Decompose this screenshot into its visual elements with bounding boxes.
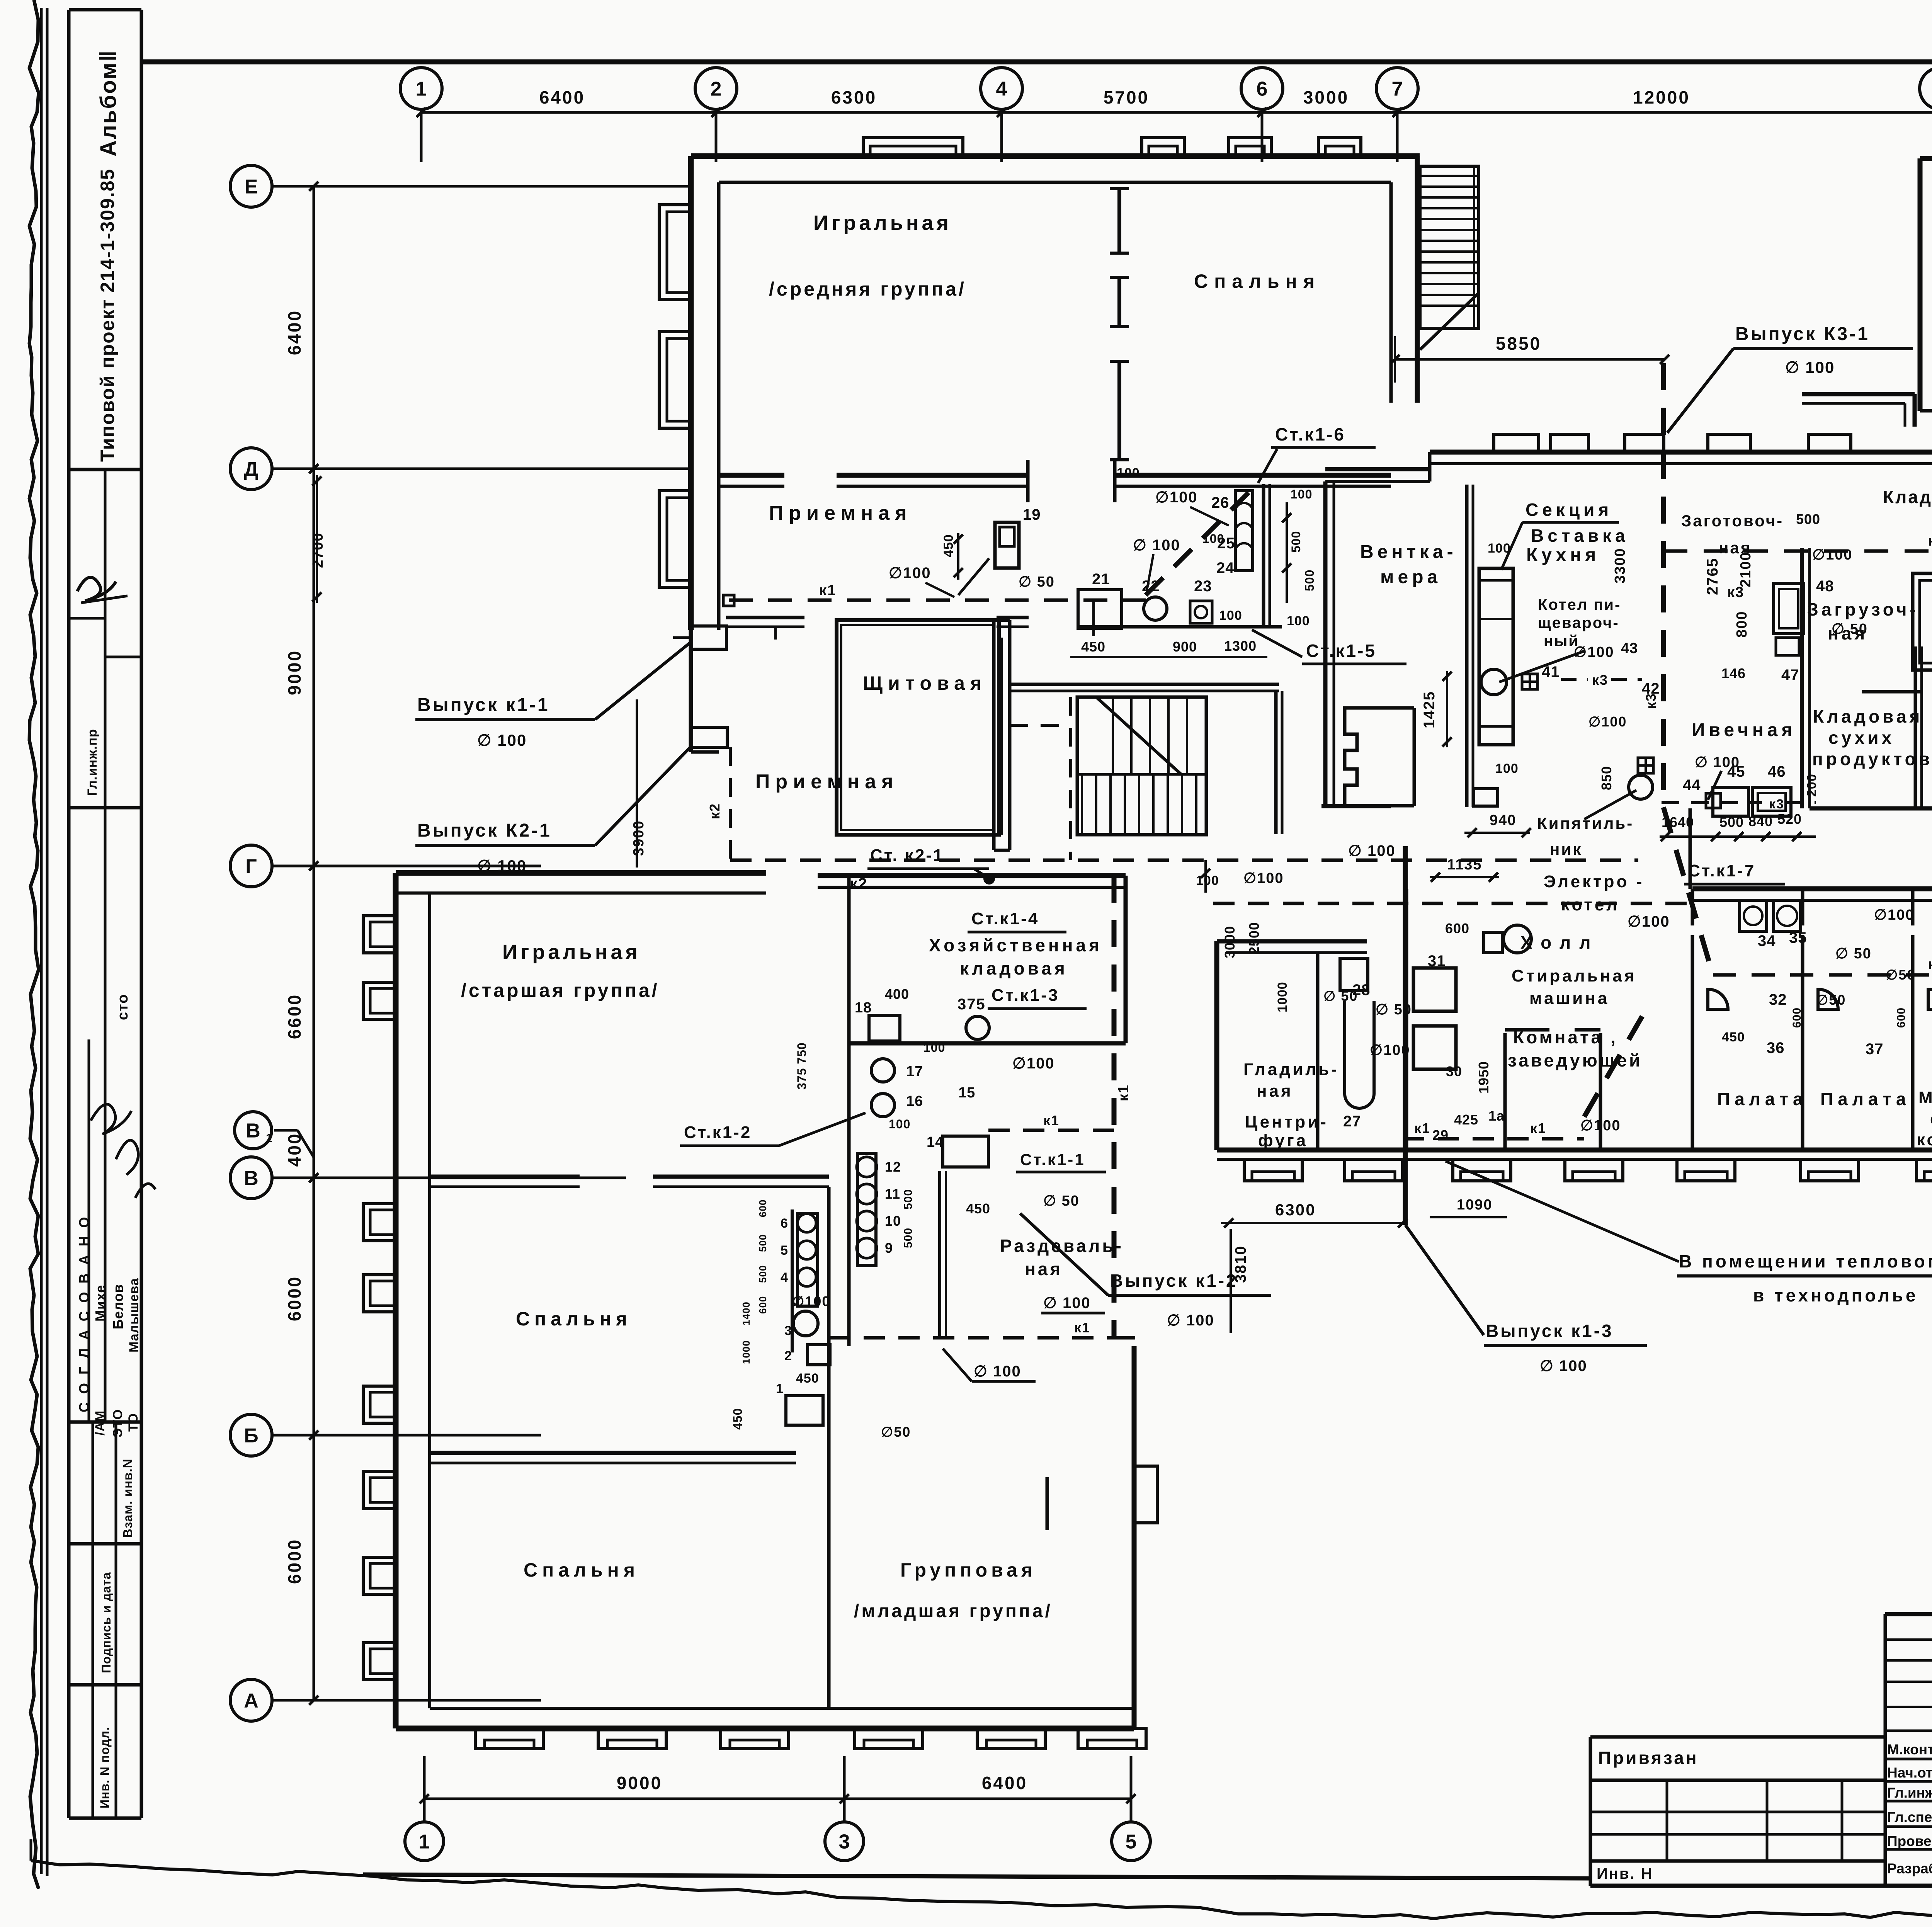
- svg-text:6000: 6000: [284, 1538, 304, 1584]
- svg-text:600: 600: [757, 1199, 769, 1217]
- svg-text:∅100: ∅100: [1812, 547, 1853, 563]
- svg-text:6600: 6600: [284, 993, 304, 1039]
- svg-text:∅ 50: ∅ 50: [1043, 1193, 1080, 1209]
- stairwell left wall: [992, 620, 996, 850]
- svg-text:∅ 100: ∅ 100: [1043, 1295, 1091, 1312]
- svg-text:1425: 1425: [1421, 691, 1438, 728]
- вентка bottom wall: [1321, 804, 1391, 808]
- svg-text:∅50: ∅50: [1816, 992, 1846, 1008]
- row AM ETO TO: [69, 1420, 141, 1424]
- svg-text:ная: ная: [1025, 1259, 1063, 1279]
- grid circle Д: [230, 448, 272, 490]
- svg-text:2: 2: [711, 78, 722, 100]
- svg-text:Гладиль-: Гладиль-: [1243, 1060, 1339, 1079]
- ML bottom window bumps: [475, 1728, 543, 1749]
- svg-text:мера: мера: [1380, 567, 1441, 587]
- stair top-right: [1420, 166, 1479, 328]
- svg-text:Ст.к1-2: Ст.к1-2: [684, 1123, 752, 1142]
- kitchen top wall: [1325, 467, 1430, 471]
- Загрузочная fixtures: [1774, 583, 1804, 634]
- right К1 vertical dashed: [1112, 876, 1117, 1338]
- svg-text:∅100: ∅100: [1574, 644, 1614, 660]
- svg-text:к3: к3: [1592, 672, 1608, 688]
- grid axis Г leader: [272, 865, 541, 868]
- svg-text:Гл.спец: Гл.спец: [1887, 1809, 1932, 1825]
- svg-text:Щитовая: Щитовая: [863, 672, 987, 694]
- svg-text:3900: 3900: [631, 820, 647, 856]
- svg-text:24: 24: [1216, 560, 1235, 577]
- bottom grid axis 1: [423, 1756, 426, 1821]
- svg-text:100: 100: [1219, 608, 1242, 623]
- svg-text:в технодполье: в технодполье: [1753, 1285, 1918, 1305]
- svg-text:Спальня: Спальня: [516, 1308, 632, 1330]
- svg-text:5: 5: [781, 1243, 788, 1258]
- signatures column: [91, 1104, 131, 1134]
- frame bottom line: [363, 1875, 1590, 1878]
- main frame top line: [141, 60, 1932, 65]
- svg-text:Игральная: Игральная: [813, 211, 952, 235]
- svg-text:к3: к3: [1928, 533, 1932, 549]
- К1 dashed bottom corridor: [829, 1336, 1114, 1340]
- svg-text:29: 29: [1432, 1127, 1449, 1143]
- svg-text:12: 12: [885, 1159, 901, 1175]
- svg-text:ТО: ТО: [126, 1413, 141, 1432]
- kitchen top window bumps: [1494, 434, 1539, 452]
- ward fixtures 34-40: [1740, 900, 1767, 931]
- grid axis В leader: [272, 1177, 626, 1179]
- нижний cluster bench 4-6: [798, 1213, 818, 1306]
- svg-text:Типовой проект 214-1-309.85: Типовой проект 214-1-309.85: [97, 168, 118, 462]
- grid circle В: [230, 1157, 272, 1199]
- svg-text:31: 31: [1428, 953, 1446, 970]
- grid axis 6 leader: [1261, 109, 1264, 162]
- svg-text:600: 600: [1445, 920, 1469, 936]
- svg-text:/старшая группа/: /старшая группа/: [461, 980, 660, 1001]
- svg-text:Приемная: Приемная: [769, 502, 912, 524]
- svg-text:19: 19: [1023, 506, 1041, 523]
- svg-text:800: 800: [1734, 611, 1750, 638]
- grid circle 1: [405, 1822, 444, 1861]
- svg-text:450: 450: [966, 1201, 990, 1216]
- partition wall игральная/спальня with openings: [1117, 189, 1121, 253]
- svg-text:к1: к1: [1530, 1120, 1546, 1136]
- хозкладовая bottom wall: [849, 1041, 1126, 1046]
- svg-text:Вставка: Вставка: [1531, 526, 1629, 546]
- sidebar box albom/project: [69, 468, 141, 471]
- svg-text:200: 200: [1804, 774, 1819, 797]
- svg-text:100: 100: [1495, 761, 1519, 776]
- kitchen bottom walls: [1810, 806, 1932, 811]
- К1 dashed diagonal to Ст.К1-6: [1146, 484, 1257, 595]
- svg-text:ная: ная: [1719, 539, 1752, 557]
- svg-text:500: 500: [1289, 531, 1303, 553]
- svg-text:щевароч-: щевароч-: [1538, 614, 1619, 631]
- svg-text:32: 32: [1769, 991, 1787, 1008]
- wards bottom window bumps: [1244, 1159, 1302, 1181]
- bottom dimension line: [424, 1798, 1131, 1800]
- svg-text:Игральная: Игральная: [502, 941, 641, 964]
- svg-text:Выпуск К3-1: Выпуск К3-1: [1735, 324, 1870, 344]
- grid axis Б leader: [272, 1434, 541, 1437]
- svg-text:Центри-: Центри-: [1245, 1112, 1328, 1131]
- svg-text:∅100: ∅100: [1155, 489, 1198, 506]
- svg-text:3000: 3000: [1303, 87, 1349, 107]
- svg-text:ная: ная: [1257, 1082, 1293, 1101]
- svg-text:Подпись и дата: Подпись и дата: [99, 1572, 113, 1673]
- svg-text:Б: Б: [244, 1425, 258, 1447]
- svg-text:15: 15: [958, 1085, 975, 1101]
- стиральная машины: [1405, 889, 1408, 1150]
- svg-text:Ст.к1-1: Ст.к1-1: [1020, 1150, 1085, 1169]
- svg-text:450: 450: [796, 1371, 819, 1386]
- svg-text:850: 850: [1599, 766, 1614, 790]
- svg-text:Кладовая: Кладовая: [1883, 487, 1932, 507]
- grid circle 4: [981, 68, 1022, 109]
- svg-text:14: 14: [927, 1134, 944, 1150]
- svg-text:∅100: ∅100: [1874, 907, 1915, 923]
- svg-text:1: 1: [419, 1831, 430, 1853]
- svg-text:к1: к1: [1074, 1320, 1090, 1335]
- svg-text:1300: 1300: [1224, 638, 1257, 654]
- sidebar soglasovano table: [68, 808, 69, 1818]
- svg-text:∅ 50: ∅ 50: [1019, 574, 1055, 590]
- svg-text:500: 500: [902, 1189, 915, 1209]
- привязан table: [1590, 1735, 1885, 1739]
- гладильная/центрифуга partition: [1316, 953, 1320, 1150]
- svg-text:комната: комната: [1917, 1130, 1932, 1149]
- scan bottom torn edge: [31, 1861, 1932, 1919]
- grid circle 1: [400, 68, 442, 109]
- svg-text:44: 44: [1683, 777, 1701, 794]
- fixture 14: [943, 1136, 988, 1167]
- cluster partition walls: [791, 1209, 794, 1352]
- svg-text:3: 3: [839, 1831, 850, 1853]
- svg-text:Проверка: Проверка: [1887, 1833, 1932, 1849]
- svg-text:6400: 6400: [539, 87, 585, 107]
- grid circle 7: [1376, 68, 1418, 109]
- svg-text:1: 1: [266, 1132, 272, 1145]
- svg-text:∅ 100: ∅ 100: [477, 731, 527, 749]
- grid circle 2: [695, 68, 737, 109]
- svg-text:11: 11: [885, 1186, 900, 1202]
- К1 dashed line main horizontal: [723, 595, 734, 606]
- svg-text:/средняя группа/: /средняя группа/: [769, 278, 966, 300]
- svg-text:Инв. Н: Инв. Н: [1597, 1865, 1653, 1882]
- svg-text:6000: 6000: [284, 1276, 304, 1321]
- sidebar outer box: [67, 10, 71, 1818]
- svg-text:Инв. N подл.: Инв. N подл.: [98, 1727, 112, 1808]
- svg-text:∅ 50: ∅ 50: [1835, 946, 1872, 962]
- svg-text:2765: 2765: [1704, 558, 1721, 595]
- wall under игральная y1230: [719, 473, 784, 478]
- svg-text:16: 16: [906, 1093, 923, 1109]
- corridor wall right of stair: [1274, 691, 1278, 834]
- grid circle В: [235, 1112, 272, 1149]
- Щитовая room: [837, 620, 999, 835]
- svg-text:Котел пи-: Котел пи-: [1538, 596, 1621, 613]
- svg-text:Электро -: Электро -: [1544, 872, 1644, 891]
- svg-text:1000: 1000: [1275, 982, 1290, 1012]
- svg-text:6: 6: [1257, 78, 1268, 100]
- svg-text:Разработ: Разработ: [1887, 1861, 1932, 1876]
- svg-text:А: А: [244, 1690, 259, 1712]
- grid axis B1: [274, 1129, 298, 1132]
- svg-text:заведующей: заведующей: [1508, 1050, 1642, 1070]
- svg-text:27: 27: [1343, 1113, 1361, 1130]
- svg-text:375 750: 375 750: [795, 1042, 809, 1090]
- grid axis 1 leader: [420, 109, 423, 162]
- svg-text:Спальня: Спальня: [1194, 270, 1321, 292]
- svg-text:6400: 6400: [982, 1773, 1027, 1793]
- svg-text:10: 10: [885, 1213, 901, 1229]
- wards bottom wall: [1217, 1148, 1932, 1153]
- svg-text:Ст.к1-3: Ст.к1-3: [992, 986, 1059, 1005]
- svg-text:3810: 3810: [1232, 1245, 1249, 1283]
- svg-text:47: 47: [1781, 667, 1799, 684]
- svg-text:Стиральная: Стиральная: [1512, 966, 1636, 985]
- svg-text:В помещении теплового пункта: В помещении теплового пункта: [1679, 1251, 1932, 1271]
- svg-text:Ст.к1-6: Ст.к1-6: [1275, 424, 1345, 444]
- grid axis А leader: [272, 1699, 541, 1702]
- svg-text:к1: к1: [1043, 1112, 1060, 1128]
- svg-text:Приемная: Приемная: [755, 771, 898, 793]
- ванна fixture: [1345, 1001, 1374, 1108]
- выпуск К1-3: [1403, 846, 1408, 1225]
- svg-text:2500: 2500: [1246, 922, 1262, 954]
- svg-text:∅ 100: ∅ 100: [974, 1363, 1021, 1380]
- svg-text:48: 48: [1816, 578, 1834, 595]
- svg-text:∅100: ∅100: [1628, 913, 1670, 930]
- wards left outer wall: [1214, 941, 1219, 1150]
- svg-text:22: 22: [1142, 578, 1160, 595]
- svg-text:100: 100: [1287, 614, 1310, 628]
- svg-text:450: 450: [941, 534, 956, 557]
- left vertical dimension line: [313, 186, 315, 1700]
- svg-text:100: 100: [1202, 532, 1224, 546]
- svg-text:7: 7: [1392, 78, 1403, 100]
- svg-text:30: 30: [1446, 1063, 1462, 1079]
- svg-text:Выпуск К2-1: Выпуск К2-1: [417, 820, 552, 841]
- svg-text:Малышева: Малышева: [127, 1278, 141, 1352]
- svg-text:котел: котел: [1561, 895, 1619, 914]
- stair block: [1077, 697, 1206, 835]
- svg-text:500: 500: [902, 1228, 915, 1248]
- gallery wall piece left of UR block: [1802, 392, 1915, 396]
- svg-text:1090: 1090: [1457, 1197, 1493, 1213]
- svg-text:ник: ник: [1550, 840, 1582, 858]
- svg-text:520: 520: [1777, 811, 1802, 827]
- svg-text:∅100: ∅100: [1588, 714, 1627, 730]
- svg-text:/младшая группа/: /младшая группа/: [854, 1601, 1053, 1621]
- svg-text:Ст. к2-1: Ст. к2-1: [870, 846, 944, 865]
- svg-text:400: 400: [885, 986, 909, 1002]
- grid circle А: [230, 1679, 272, 1721]
- svg-text:2100: 2100: [1738, 551, 1754, 587]
- svg-text:500: 500: [1796, 511, 1820, 527]
- cluster fixtures top: [869, 1016, 900, 1041]
- svg-text:∅ 100: ∅ 100: [1348, 842, 1396, 859]
- svg-text:5700: 5700: [1104, 87, 1149, 107]
- svg-text:500: 500: [1303, 570, 1316, 591]
- wards partitions: [1691, 935, 1694, 1150]
- хозкладовая top wall: [818, 873, 1126, 878]
- svg-text:∅ 100: ∅ 100: [1785, 358, 1835, 376]
- svg-text:1: 1: [416, 78, 427, 100]
- wards top wall right part: [1692, 886, 1932, 891]
- bench circles 9-12: [857, 1153, 876, 1266]
- svg-text:425: 425: [1454, 1112, 1478, 1128]
- svg-text:∅100: ∅100: [792, 1293, 830, 1309]
- 5850 dim: [1395, 358, 1665, 361]
- grid circle 6: [1241, 68, 1283, 109]
- bottom grid axis 5: [1130, 1756, 1133, 1821]
- svg-text:Холл: Холл: [1520, 932, 1599, 953]
- svg-text:100: 100: [1196, 873, 1219, 888]
- svg-text:машина: машина: [1529, 989, 1609, 1008]
- wall above stair: [1010, 683, 1279, 686]
- svg-text:∅100: ∅100: [1012, 1055, 1055, 1072]
- sidebar mid table: [69, 806, 141, 810]
- svg-text:В: В: [244, 1167, 259, 1190]
- svg-text:Вентка-: Вентка-: [1360, 542, 1457, 562]
- svg-text:Палата: Палата: [1820, 1089, 1911, 1109]
- svg-text:600: 600: [1895, 1007, 1908, 1028]
- svg-text:42: 42: [1642, 680, 1660, 697]
- svg-text:∅ 50: ∅ 50: [1323, 988, 1358, 1004]
- svg-text:Ст.к1-4: Ст.к1-4: [971, 909, 1039, 928]
- lower stamp rows: [92, 1422, 94, 1818]
- svg-text:Выпуск к1-1: Выпуск к1-1: [417, 695, 550, 715]
- svg-text:Заготовоч-: Заготовоч-: [1681, 512, 1784, 530]
- svg-text:23: 23: [1194, 578, 1212, 595]
- svg-text:41: 41: [1542, 663, 1560, 680]
- fixtures 1-3: [793, 1311, 818, 1336]
- svg-text:45: 45: [1727, 763, 1745, 780]
- svg-text:ская: ская: [1930, 1109, 1932, 1128]
- fixture 19: [995, 522, 1019, 568]
- svg-text:Гл.инж.пр: Гл.инж.пр: [85, 729, 100, 796]
- К3 horizontal dashed: [1663, 549, 1932, 553]
- svg-text:фуга: фуга: [1258, 1131, 1308, 1150]
- svg-text:Д: Д: [244, 458, 258, 481]
- svg-text:1400: 1400: [740, 1301, 752, 1325]
- svg-text:450: 450: [1081, 639, 1105, 655]
- svg-text:9: 9: [885, 1240, 893, 1256]
- grid circle Г: [230, 845, 272, 887]
- svg-text:450: 450: [1722, 1030, 1745, 1044]
- ward sinks: [1708, 989, 1728, 1009]
- svg-text:37: 37: [1866, 1041, 1884, 1058]
- svg-text:к1: к1: [1116, 1084, 1132, 1101]
- svg-text:к1: к1: [819, 582, 836, 599]
- svg-text:100: 100: [1488, 541, 1511, 556]
- svg-text:6: 6: [781, 1216, 788, 1231]
- svg-text:Секция: Секция: [1526, 500, 1612, 520]
- svg-text:Михе: Михе: [92, 1285, 108, 1322]
- вентка-мера left wall: [1323, 481, 1328, 806]
- svg-text:Гл.инж.пр: Гл.инж.пр: [1887, 1785, 1932, 1801]
- svg-text:/АМ: /АМ: [93, 1410, 107, 1436]
- Кипятильник: [1629, 775, 1653, 799]
- svg-text:Белов: Белов: [110, 1284, 126, 1329]
- svg-text:1: 1: [776, 1381, 784, 1396]
- grid circle Е: [230, 165, 272, 207]
- left exterior bits near выпуск: [692, 626, 726, 649]
- toilet cluster walls: [847, 876, 851, 1346]
- svg-text:Кладовая: Кладовая: [1813, 706, 1923, 726]
- left sheet double edge: [40, 8, 43, 1874]
- fixtures 21-26 cluster: [1078, 590, 1122, 628]
- svg-text:4: 4: [781, 1270, 788, 1285]
- signature table: [1884, 1614, 1887, 1886]
- svg-text:1000: 1000: [740, 1340, 752, 1364]
- UL block outer walls: [691, 153, 1420, 159]
- svg-text:сто: сто: [115, 994, 131, 1020]
- svg-text:Медицин-: Медицин-: [1918, 1088, 1932, 1107]
- svg-text:9000: 9000: [617, 1773, 662, 1793]
- svg-text:18: 18: [855, 1000, 872, 1016]
- svg-text:900: 900: [1173, 639, 1197, 655]
- svg-text:В: В: [246, 1120, 260, 1142]
- grid axis Е leader: [272, 185, 692, 188]
- svg-text:450: 450: [731, 1408, 745, 1430]
- svg-text:Палата: Палата: [1717, 1089, 1808, 1109]
- svg-text:∅100: ∅100: [1580, 1118, 1621, 1134]
- svg-text:к1: к1: [1414, 1120, 1430, 1136]
- bottom grid axis 3: [843, 1756, 846, 1821]
- signature scribble: [77, 577, 116, 601]
- svg-text:5: 5: [1126, 1831, 1137, 1853]
- svg-text:Выпуск к1-3: Выпуск к1-3: [1486, 1321, 1614, 1341]
- svg-text:12000: 12000: [1633, 87, 1690, 107]
- svg-text:Привязан: Привязан: [1598, 1748, 1699, 1768]
- svg-text:100: 100: [923, 1041, 945, 1055]
- grid circle 5: [1112, 1822, 1150, 1861]
- svg-text:400: 400: [284, 1133, 304, 1167]
- svg-text:∅100: ∅100: [889, 565, 931, 582]
- svg-text:ная: ная: [1828, 623, 1868, 643]
- svg-text:600: 600: [1791, 1007, 1803, 1028]
- top dimension line: [421, 111, 1932, 114]
- svg-text:46: 46: [1768, 763, 1786, 780]
- svg-text:4: 4: [996, 78, 1007, 100]
- svg-text:∅50: ∅50: [1886, 967, 1915, 983]
- svg-text:Нач.отд.: Нач.отд.: [1887, 1765, 1932, 1781]
- svg-text:600: 600: [757, 1296, 769, 1314]
- svg-text:6300: 6300: [831, 87, 877, 107]
- svg-text:26: 26: [1211, 494, 1230, 511]
- Холодильная камера box: [1913, 573, 1932, 670]
- К1 dashed right wing: [1713, 973, 1932, 977]
- вентка-мера right wall: [1465, 485, 1469, 807]
- svg-text:9000: 9000: [284, 650, 304, 695]
- svg-text:∅ 100: ∅ 100: [1540, 1357, 1587, 1374]
- svg-text:1950: 1950: [1476, 1061, 1492, 1094]
- групповая left wall: [827, 1477, 831, 1708]
- svg-text:500: 500: [1719, 814, 1744, 830]
- UL top window bumps: [863, 138, 963, 157]
- grid circle Б: [230, 1414, 272, 1456]
- svg-text:к1: к1: [1928, 956, 1932, 973]
- svg-text:Хозяйственная: Хозяйственная: [929, 935, 1102, 955]
- svg-text:35: 35: [1789, 929, 1807, 946]
- title block outer: [1885, 1612, 1932, 1616]
- svg-text:100: 100: [1291, 487, 1312, 501]
- UR block outer walls: [1920, 156, 1932, 161]
- svg-text:100: 100: [1117, 466, 1140, 480]
- svg-text:17: 17: [906, 1063, 923, 1080]
- ML left window bumps: [363, 916, 396, 953]
